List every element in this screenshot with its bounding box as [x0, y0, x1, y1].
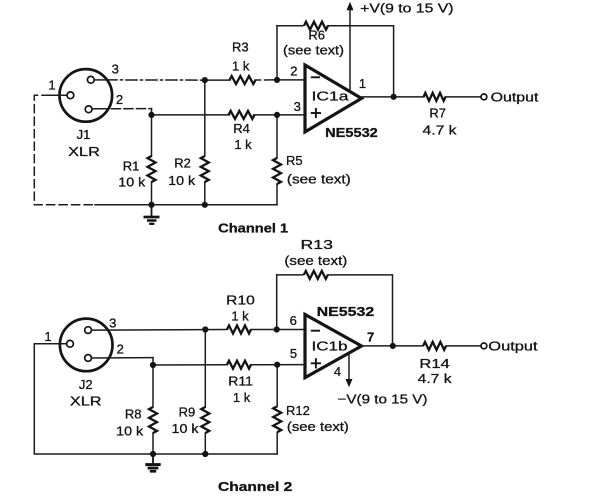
svg-text:XLR: XLR: [68, 144, 100, 159]
J2 pin 2 contact: [85, 355, 92, 362]
wire ground rail ch1: [95, 204, 277, 206]
connector J2 (XLR) body: [60, 319, 113, 372]
svg-text:IC1a: IC1a: [312, 88, 350, 103]
svg-text:1 k: 1 k: [233, 390, 251, 405]
resistor R3: [230, 76, 256, 84]
junction R1 top node: [148, 112, 154, 118]
wire R1 node to R4: [152, 114, 230, 116]
wire ground rail ch2: [153, 453, 277, 455]
svg-text:R2: R2: [174, 156, 191, 171]
resistor R10: [227, 326, 251, 334]
svg-text:10 k: 10 k: [168, 173, 196, 188]
wire IC1a output to R7: [362, 96, 424, 98]
supply -V arrow: [346, 379, 353, 387]
svg-text:4: 4: [334, 364, 341, 379]
junction output node ch2: [390, 343, 396, 349]
J2 pin 3 contact: [85, 327, 92, 334]
svg-text:R4: R4: [233, 121, 250, 136]
wire to R6: [277, 25, 303, 27]
IC1b minus sign: [311, 330, 320, 332]
resistor R13: [304, 271, 328, 279]
wire IC1a V+ pin to supply: [349, 10, 351, 92]
svg-text:1 k: 1 k: [234, 137, 252, 152]
svg-text:Channel 2: Channel 2: [218, 479, 292, 494]
svg-text:R12: R12: [286, 403, 310, 418]
svg-text:XLR: XLR: [70, 394, 102, 409]
junction R12 tap pin5: [274, 362, 280, 368]
svg-text:(see text): (see text): [283, 43, 344, 58]
svg-text:R7: R7: [429, 105, 446, 120]
wire J1 pin2 lead: [92, 108, 99, 110]
svg-text:R11: R11: [228, 374, 253, 389]
resistor R5: [276, 115, 278, 158]
wire IC1b V- pin to supply: [348, 353, 350, 380]
svg-text:R14: R14: [419, 356, 449, 371]
J1 pin 3 contact: [87, 76, 94, 83]
resistor R4: [229, 111, 255, 119]
svg-text:R8: R8: [125, 407, 142, 422]
supply +V arrow: [347, 2, 354, 10]
wire IC1b output to R14: [362, 345, 423, 347]
wire R4 to IC1a pin3: [254, 114, 306, 116]
wire R10 to IC1b pin6: [251, 329, 305, 331]
IC1a plus sign: [311, 108, 321, 118]
resistor R11: [227, 361, 251, 369]
wire R14 to output terminal: [446, 345, 481, 347]
wire J1 pin2 to R1 node (dashed): [99, 108, 152, 110]
svg-text:2: 2: [117, 342, 124, 357]
resistor R8: [152, 365, 154, 407]
ground ch2: [145, 454, 160, 471]
resistor R2: [204, 80, 206, 156]
wire R7 to output terminal: [446, 96, 482, 98]
svg-text:−V(9 to 15 V): −V(9 to 15 V): [338, 391, 428, 406]
junction R9 top node: [202, 326, 208, 332]
ground ch1: [144, 205, 160, 224]
svg-text:+V(9 to 15 V): +V(9 to 15 V): [360, 1, 453, 16]
op-amp IC1a: [305, 65, 362, 132]
junction feedback tap pin2: [274, 77, 280, 83]
wire IC1b pin6 node up to R13: [276, 275, 278, 330]
wire J1 pin3 lead: [94, 79, 106, 81]
svg-text:Output: Output: [491, 89, 539, 104]
IC1a minus sign: [311, 76, 320, 78]
wire J1 pin1 to ground rail (dashed): [34, 95, 95, 205]
J1 pin 2 contact: [85, 106, 92, 113]
resistor R6: [304, 22, 328, 30]
junction R1 bottom rail: [148, 202, 154, 208]
svg-text:10 k: 10 k: [172, 421, 200, 436]
J1 pin 1 contact: [67, 92, 74, 99]
wire J2 pin2 lead: [92, 357, 154, 359]
svg-text:3: 3: [294, 99, 301, 114]
svg-text:Channel 1: Channel 1: [218, 220, 288, 235]
wire R11 to IC1b pin5: [251, 364, 305, 366]
junction R9 bottom rail: [202, 451, 208, 457]
svg-text:1: 1: [359, 76, 366, 91]
J2 pin 1 contact: [67, 340, 74, 347]
wire J2 pin3 to R10: [92, 329, 228, 332]
output terminal ch2: [481, 343, 487, 349]
wire R3 to feedback node (dashed): [255, 79, 272, 81]
svg-text:2: 2: [290, 64, 297, 79]
svg-text:1 k: 1 k: [232, 59, 250, 74]
wire R13 to output node: [328, 275, 393, 346]
svg-text:NE5532: NE5532: [317, 304, 375, 319]
resistor R1: [151, 115, 153, 156]
svg-text:10 k: 10 k: [118, 175, 146, 190]
wire feedback node to IC1a pin2: [272, 79, 306, 81]
junction output node ch1: [391, 94, 397, 100]
svg-text:R9: R9: [179, 405, 196, 420]
resistor R9: [204, 330, 206, 408]
svg-text:J1: J1: [77, 127, 91, 142]
output terminal ch1: [481, 94, 487, 100]
svg-text:R6: R6: [308, 28, 325, 43]
svg-text:(see text): (see text): [284, 253, 347, 268]
svg-text:4.7 k: 4.7 k: [418, 371, 453, 386]
svg-text:1: 1: [44, 329, 51, 344]
svg-text:4.7 k: 4.7 k: [423, 122, 458, 137]
wire J1 pin3 to R3 (dash-dot): [106, 79, 205, 81]
svg-text:J2: J2: [79, 377, 93, 392]
wire to R13: [277, 274, 303, 276]
svg-text:5: 5: [290, 346, 297, 361]
svg-text:3: 3: [109, 316, 116, 331]
resistor R14: [423, 342, 446, 350]
op-amp IC1b: [305, 315, 362, 378]
svg-text:(see text): (see text): [287, 172, 351, 187]
svg-text:IC1b: IC1b: [312, 339, 348, 354]
svg-text:NE5532: NE5532: [325, 125, 378, 140]
svg-text:R10: R10: [226, 293, 255, 308]
junction R2 top node: [202, 77, 208, 83]
wire jog at R8 node: [152, 358, 154, 365]
wire R6 to output node: [328, 26, 394, 97]
junction feedback tap pin6: [274, 326, 280, 332]
wire R8 node to R11: [153, 364, 227, 366]
resistor R7: [424, 93, 446, 101]
svg-text:R13: R13: [301, 237, 333, 252]
svg-text:(see text): (see text): [287, 419, 349, 434]
junction R2 bottom rail: [202, 202, 208, 208]
svg-text:3: 3: [112, 61, 119, 76]
wire jog at R1 node: [151, 109, 153, 115]
resistor R12: [276, 365, 278, 406]
svg-text:R3: R3: [232, 40, 249, 55]
svg-text:1 k: 1 k: [231, 308, 249, 323]
svg-text:Output: Output: [488, 339, 538, 354]
svg-text:7: 7: [367, 330, 374, 345]
junction R8 top node: [150, 362, 156, 368]
connector J1 (XLR) body: [60, 69, 113, 122]
svg-text:R1: R1: [123, 159, 140, 174]
svg-text:1: 1: [48, 78, 55, 93]
wire node R2-top to R3: [205, 79, 230, 81]
svg-text:6: 6: [290, 313, 297, 328]
junction R5 tap pin3: [274, 112, 280, 118]
junction R8 bottom rail: [150, 451, 156, 457]
svg-text:R5: R5: [286, 153, 303, 168]
wire J2 pin1 to ground rail: [34, 344, 153, 454]
IC1b plus sign: [311, 358, 321, 368]
wire IC1a pin2 node up to R6: [276, 26, 278, 80]
svg-text:2: 2: [116, 92, 123, 107]
svg-text:10 k: 10 k: [116, 423, 144, 438]
wire J1 pin1 lead: [50, 94, 67, 96]
